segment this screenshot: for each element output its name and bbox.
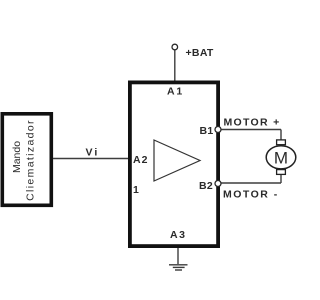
svg-text:B2: B2 — [199, 180, 213, 192]
wire MOTOR+ horizontal — [220, 129, 281, 131]
svg-text:MOTOR -: MOTOR - — [223, 189, 279, 201]
svg-text:+BAT: +BAT — [186, 47, 214, 59]
op-amp triangle — [154, 140, 200, 181]
wire motor right vertical top — [280, 130, 282, 141]
ground — [169, 265, 188, 270]
svg-text:B1: B1 — [200, 125, 214, 137]
terminal B2 — [215, 181, 221, 187]
motor M1 bottom brush — [277, 170, 286, 175]
svg-text:Vi: Vi — [86, 147, 100, 159]
block U1 main driver box — [130, 82, 218, 246]
wire Vi — [53, 158, 128, 160]
terminal B1 — [215, 127, 221, 133]
svg-text:M: M — [274, 148, 288, 167]
wire ground vertical — [177, 248, 179, 264]
wire motor right vertical bottom — [280, 174, 282, 183]
svg-text:A1: A1 — [167, 86, 184, 98]
wire MOTOR- horizontal — [220, 182, 281, 184]
svg-text:A3: A3 — [170, 229, 187, 241]
motor M1 body — [266, 146, 296, 169]
svg-text:A2: A2 — [133, 154, 148, 166]
svg-text:1: 1 — [133, 184, 139, 196]
terminal +BAT — [172, 44, 178, 50]
svg-text:Cliematizador: Cliematizador — [25, 119, 37, 201]
motor M1 top brush — [277, 140, 286, 145]
block U2 Mando Cliematizador — [2, 114, 51, 206]
wire +BAT vertical — [174, 50, 176, 81]
svg-text:Mando: Mando — [11, 141, 23, 173]
svg-text:MOTOR +: MOTOR + — [224, 117, 281, 129]
